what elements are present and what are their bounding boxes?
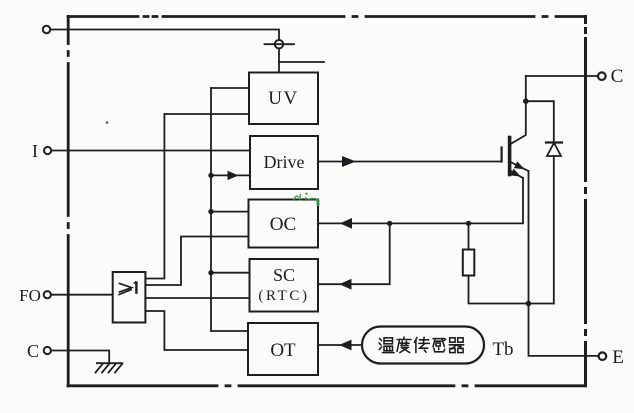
diode FWD <box>546 143 562 157</box>
node emitter-E <box>526 301 532 307</box>
svg-text:I: I <box>32 141 38 161</box>
module boundary left (dash-dot) <box>67 17 70 386</box>
wire C to ground <box>51 351 109 364</box>
wire sense to SC <box>318 223 390 284</box>
wire OR to OT <box>145 311 248 350</box>
svg-text:Drive: Drive <box>264 152 305 172</box>
node bus-Drive <box>208 173 213 178</box>
node bus-OC <box>208 209 213 214</box>
wire bus to OC <box>211 211 249 213</box>
transistor IGBT body bar <box>508 138 512 175</box>
terminal VCC (top-left) <box>43 26 50 33</box>
node sense-resistor <box>466 221 471 226</box>
wire supply to UV <box>278 49 280 73</box>
resistor R (sense) <box>463 250 475 276</box>
block UV <box>249 73 318 125</box>
green annotation artifact <box>294 193 320 207</box>
block OT <box>248 323 318 375</box>
svg-text:OC: OC <box>270 214 296 235</box>
terminal C (collector) <box>598 72 606 80</box>
char wen <box>379 338 394 353</box>
svg-text:(RTC): (RTC) <box>258 288 309 304</box>
terminal E <box>599 352 607 360</box>
temperature sensor ellipse <box>362 327 484 364</box>
node bus-SC <box>208 270 213 275</box>
arrow into OT <box>339 340 352 351</box>
char du <box>397 337 411 353</box>
module boundary right (dash-dot) <box>584 17 587 386</box>
svg-text:C: C <box>611 66 624 87</box>
wire Drive to gate <box>318 161 502 163</box>
wire sense emitter down <box>318 178 523 223</box>
svg-text:Tb: Tb <box>492 339 513 360</box>
char qi <box>449 338 463 353</box>
wire FO to OR <box>51 294 113 296</box>
wire emitter down <box>528 171 530 304</box>
char gan <box>433 339 446 352</box>
wire VCC to supply node <box>51 30 280 41</box>
transistor IGBT sense emitter lead <box>511 171 524 178</box>
block SC (RTC) <box>250 259 319 312</box>
char chuan <box>415 337 430 352</box>
label >=1 (drawn, tilted) <box>118 281 136 295</box>
wire diode top <box>526 101 554 142</box>
node sense-SC <box>387 221 392 226</box>
wire UV fault to OR <box>145 114 164 279</box>
module boundary bottom (dash-dot) <box>68 384 586 387</box>
svg-text:SC: SC <box>273 265 295 285</box>
speck artifact <box>106 121 109 124</box>
wire resistor bottom lead <box>469 276 554 304</box>
transistor IGBT emitter lead <box>511 162 529 171</box>
svg-text:C: C <box>27 341 39 361</box>
arrow into SC <box>339 279 351 290</box>
ground <box>96 363 123 372</box>
wire UV input 2 <box>164 113 249 115</box>
wire I to Drive <box>51 150 250 152</box>
arrow into OC <box>340 218 352 229</box>
block OC <box>249 200 319 248</box>
transistor IGBT gate bar <box>501 148 503 162</box>
supply node crossbar <box>265 43 295 45</box>
wire OR to SC <box>145 297 249 299</box>
label temperature sensor (CJK drawn) <box>379 337 464 353</box>
wire bus to SC <box>211 272 250 274</box>
wire UV input 1 <box>211 87 249 89</box>
wire resistor top lead <box>468 223 470 249</box>
svg-text:E: E <box>612 347 624 368</box>
wire bus to OT <box>211 330 248 332</box>
wire sensor to OT <box>318 344 362 346</box>
supply node circle <box>275 40 283 48</box>
wire OR to OC <box>145 237 248 286</box>
wire collector to C terminal <box>526 75 598 77</box>
wire supply stub <box>279 61 324 63</box>
transistor IGBT collector lead <box>511 76 526 144</box>
wire status bus vertical <box>210 88 212 331</box>
wire bus to Drive (arrow) <box>211 174 250 176</box>
terminal C (control gnd) <box>44 347 51 354</box>
terminal I <box>44 147 51 154</box>
wire diode bottom <box>553 156 555 304</box>
svg-text:FO: FO <box>19 286 41 305</box>
block Drive <box>250 136 318 189</box>
svg-text:OT: OT <box>270 340 296 361</box>
svg-text:UV: UV <box>268 88 298 109</box>
node collector-diode <box>523 98 529 104</box>
wire to E terminal <box>529 304 599 356</box>
module boundary top (dash-dot) <box>68 15 586 18</box>
OR gate block <box>113 272 146 323</box>
terminal FO <box>44 291 51 298</box>
